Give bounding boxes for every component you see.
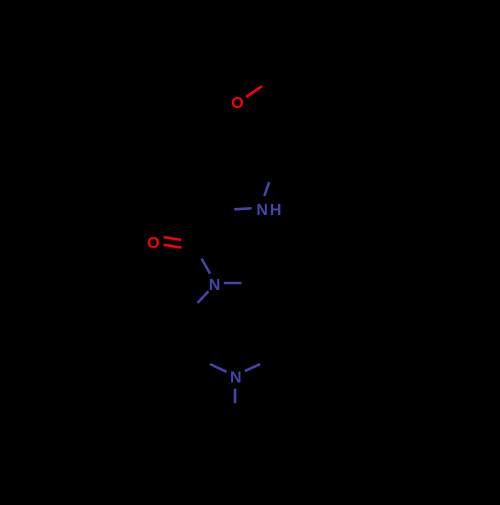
svg-text:O: O bbox=[231, 95, 243, 112]
bond N1-C up-left bbox=[202, 259, 210, 274]
bond N4-CH3 down bbox=[234, 389, 237, 404]
svg-text:O: O bbox=[147, 235, 159, 252]
bond NH-C left bbox=[234, 208, 251, 209]
bond C=O double line bottom bbox=[164, 245, 182, 248]
bond N1-C right bbox=[224, 282, 242, 285]
bond C=O double line top bbox=[164, 237, 182, 240]
bond N4-C up-left bbox=[210, 364, 227, 372]
bond N4-C up-right bbox=[245, 364, 260, 371]
svg-text:H: H bbox=[270, 202, 282, 219]
svg-text:N: N bbox=[256, 202, 268, 219]
bond O(methoxy)-CH3 bbox=[246, 86, 262, 97]
svg-text:N: N bbox=[209, 277, 221, 294]
bond N1-C down-left bbox=[198, 291, 209, 302]
svg-text:N: N bbox=[230, 370, 242, 387]
bond NH-C up bbox=[264, 182, 269, 196]
